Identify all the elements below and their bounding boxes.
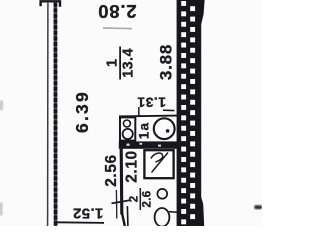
wire left wall thin line [47, 3, 49, 226]
left edge faint crop mark lower [0, 203, 2, 216]
faucet dot in toilet circle [166, 129, 170, 133]
shower square glyph [151, 153, 163, 162]
room 1a top wall line [119, 115, 177, 118]
faint dimension line under 2.80 [103, 27, 132, 30]
svg-text:13.4: 13.4 [121, 48, 137, 78]
right edge dash [254, 205, 262, 209]
second wall line bottom [126, 206, 129, 226]
toilet tank ellipse [155, 208, 170, 227]
area fraction 2/2.6 (rotated -90) [128, 188, 153, 210]
svg-text:2.10: 2.10 [123, 150, 140, 183]
left edge faint crop mark upper [0, 101, 3, 111]
tick below 1.31 left [138, 107, 140, 116]
checkered exterior wall strip [177, 0, 205, 226]
wall cap top-left [41, 1, 60, 7]
wall continuation to bottom [122, 214, 125, 226]
svg-text:1.52: 1.52 [73, 205, 104, 222]
bottom wall line [57, 221, 105, 224]
thick interior wall [119, 141, 178, 148]
svg-text:1a: 1a [137, 122, 152, 139]
svg-text:2.80: 2.80 [97, 1, 136, 22]
washbasin unit rectangle [120, 117, 135, 140]
washbasin small circle [123, 120, 130, 127]
small sink circle [157, 189, 167, 199]
dimension line vertical [115, 190, 117, 219]
svg-text:3.88: 3.88 [157, 44, 176, 80]
svg-text:6.39: 6.39 [72, 90, 92, 133]
svg-text:1: 1 [105, 59, 121, 67]
svg-text:1.31: 1.31 [137, 95, 166, 111]
connector line to wall [169, 211, 178, 214]
dimension tick cross [112, 200, 131, 203]
room label fraction 1/13.4 (rotated -90) [105, 47, 137, 80]
toilet bowl circle [154, 118, 175, 139]
tick right of 1.31 [163, 109, 175, 111]
svg-text:2.56: 2.56 [103, 154, 120, 187]
washbasin big circle [123, 129, 133, 139]
svg-text:2.6: 2.6 [141, 191, 153, 208]
shower square [144, 150, 173, 178]
wire left wall thick dashed line [54, 3, 58, 226]
svg-text:2: 2 [128, 196, 140, 202]
interior wall vertical [120, 149, 124, 215]
